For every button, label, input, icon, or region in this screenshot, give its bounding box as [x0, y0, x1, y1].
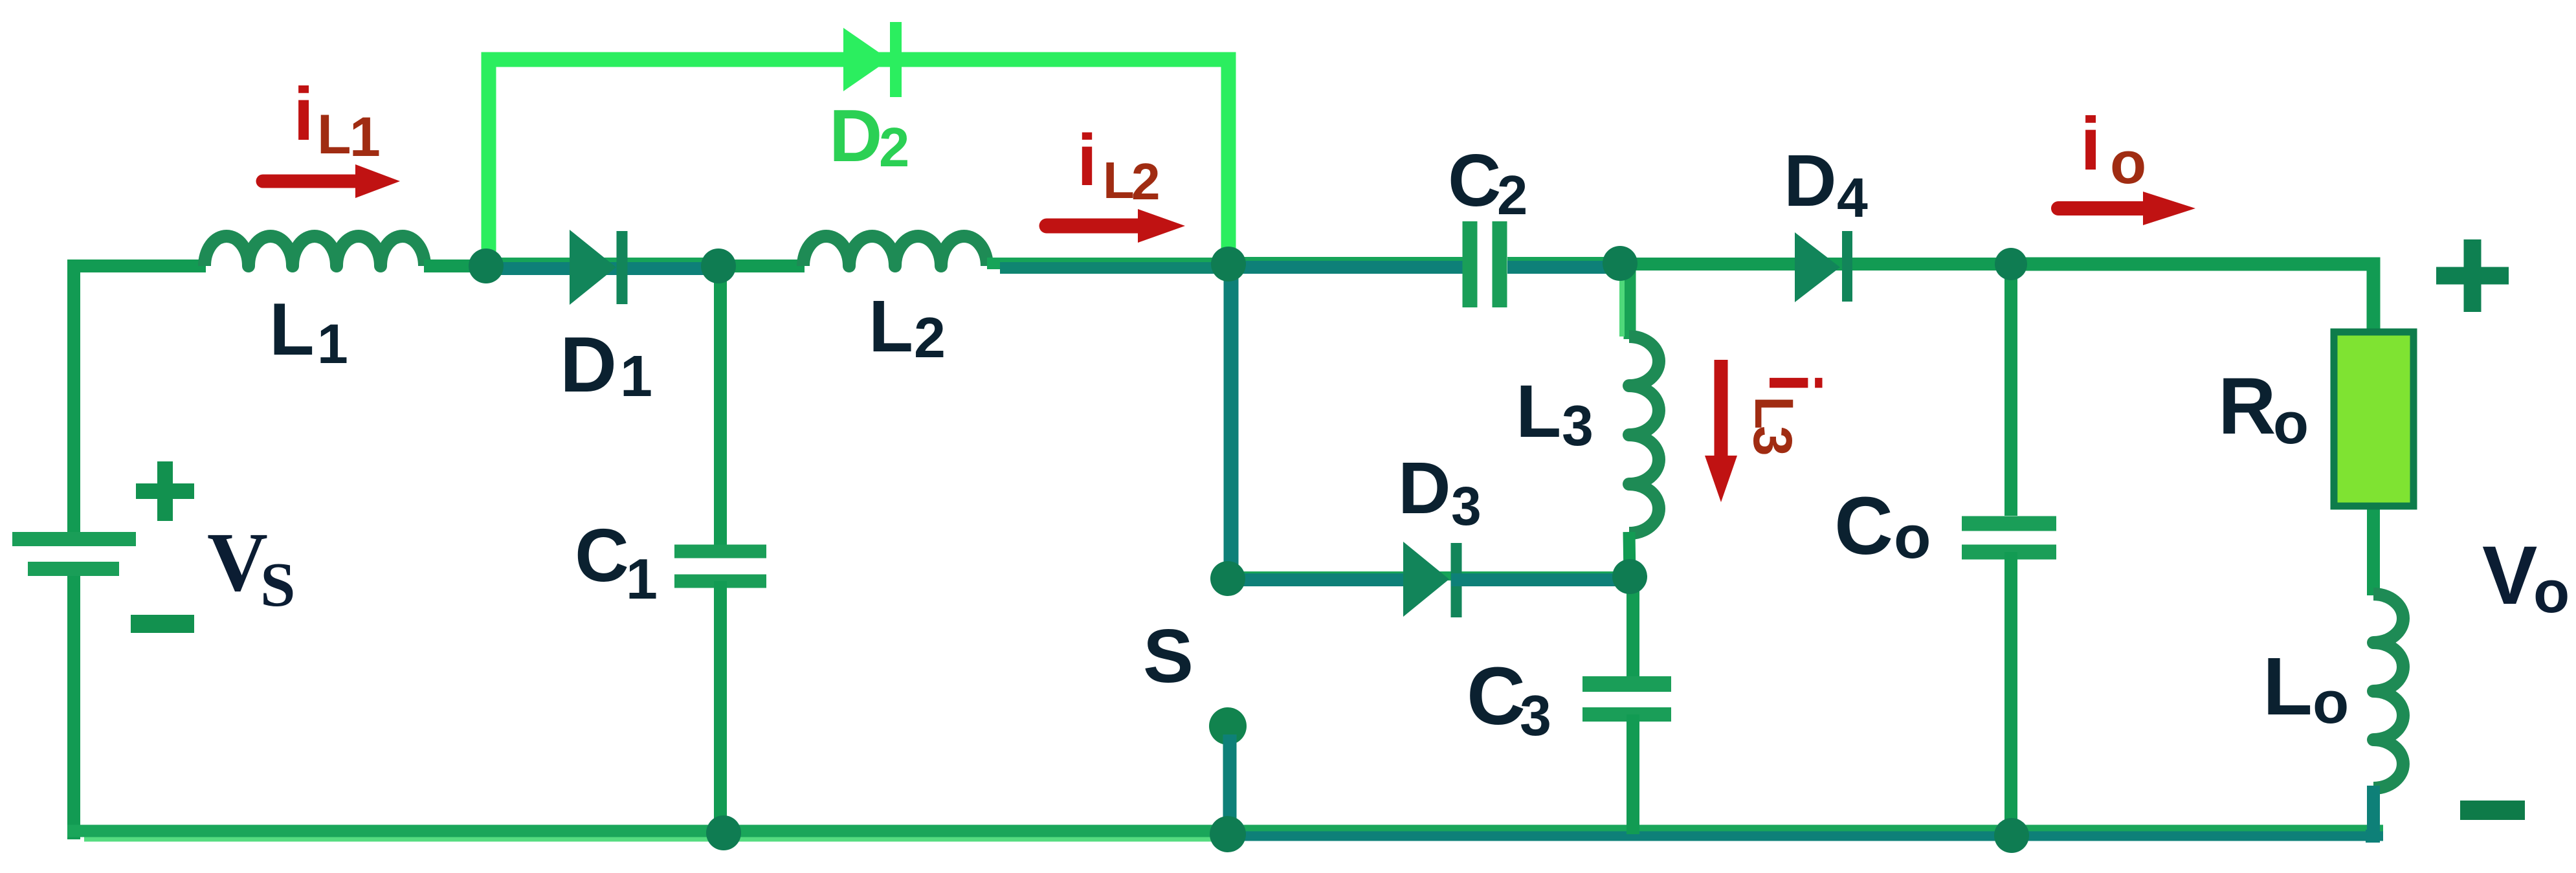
wire Ro bottom to Lo top: [2367, 507, 2380, 595]
svg-text:2: 2: [914, 305, 946, 370]
wire teal vertical node C to switch node: [1224, 264, 1239, 580]
output plus sign: [2436, 239, 2509, 312]
svg-text:C: C: [1448, 140, 1501, 222]
svg-text:1: 1: [317, 313, 348, 375]
svg-text:L: L: [1516, 370, 1561, 453]
wire teal D3 to node F: [1451, 573, 1630, 586]
svg-text:1: 1: [620, 344, 652, 409]
capacitor Co top wire: [2004, 264, 2017, 516]
svg-text:o: o: [2110, 130, 2146, 196]
current arrow iL2: [1047, 219, 1141, 234]
svg-text:i: i: [1077, 120, 1097, 201]
node S-bottom junction dot: [1210, 816, 1246, 852]
inductor Lo: [2373, 594, 2403, 788]
wire node E to top right corner and down to Ro: [2011, 264, 2373, 331]
wire bright green D2 bypass loop: [489, 60, 1228, 266]
capacitor C3 plates: [1582, 676, 1671, 692]
node C1-bottom junction dot: [706, 815, 741, 850]
svg-text:o: o: [2273, 392, 2309, 456]
current arrow io: [2058, 201, 2146, 215]
capacitor C3 top wire: [1627, 577, 1639, 677]
svg-text:L: L: [1744, 396, 1804, 429]
diode D3 cathode bar: [1451, 543, 1462, 617]
svg-text:D: D: [560, 320, 617, 408]
svg-text:L: L: [869, 285, 913, 367]
svg-text:L: L: [2263, 641, 2313, 732]
svg-text:C: C: [1834, 480, 1893, 571]
diode D1: [570, 230, 616, 305]
node D junction dot: [1603, 246, 1638, 281]
svg-text:D: D: [1784, 140, 1837, 221]
wire Lo bottom to bottom bus corner: [2366, 786, 2373, 836]
node A junction dot: [469, 249, 504, 283]
node E junction dot: [1995, 248, 2027, 280]
svg-text:4: 4: [1837, 167, 1868, 229]
wire left vertical from top bus to battery top plate: [67, 260, 80, 539]
node B junction dot: [701, 249, 736, 283]
svg-text:L: L: [317, 104, 351, 166]
wire node D to D4 and node E: [1620, 258, 2011, 271]
svg-text:1: 1: [626, 547, 658, 611]
node switch-top junction dot: [1210, 561, 1245, 596]
diode D3: [1403, 542, 1449, 617]
svg-text:i: i: [2080, 102, 2101, 186]
diode D1 cathode bar: [617, 231, 628, 304]
node F junction dot: [1612, 559, 1647, 594]
label iL3 rotated: [1742, 373, 1835, 456]
wire L3 bottom to node F: [1629, 532, 1630, 577]
svg-text:1: 1: [350, 106, 381, 168]
svg-text:3: 3: [1562, 393, 1593, 458]
node Co-bottom junction dot: [1994, 818, 2029, 853]
switch S lower lead: [1223, 735, 1237, 833]
capacitor C1 bottom wire: [714, 581, 727, 833]
wire green base node A to node B: [486, 258, 718, 269]
svg-text:2: 2: [1497, 165, 1527, 227]
svg-text:i: i: [293, 72, 314, 156]
capacitor C1 top wire: [714, 266, 727, 545]
svg-text:S: S: [260, 550, 296, 620]
battery Vs short plate: [28, 562, 119, 576]
wire node B to L2: [718, 260, 805, 272]
svg-text:3: 3: [1520, 683, 1551, 747]
capacitor C1 plates: [674, 545, 766, 558]
node C junction dot: [1211, 247, 1246, 282]
inductor L1: [205, 236, 425, 266]
capacitor Co plates: [1962, 516, 2056, 531]
svg-text:i: i: [1754, 373, 1835, 393]
diode D2 cathode bar: [890, 22, 902, 97]
svg-text:o: o: [1894, 503, 1931, 571]
diode D4 cathode bar: [1842, 231, 1852, 302]
svg-text:L: L: [269, 289, 315, 371]
svg-text:2: 2: [879, 117, 909, 179]
svg-text:2: 2: [1131, 153, 1160, 210]
svg-text:3: 3: [1451, 476, 1482, 536]
wire teal C2 right plate to node D: [1507, 261, 1620, 274]
capacitor C3 bottom wire: [1627, 714, 1639, 834]
svg-text:R: R: [2218, 362, 2276, 451]
svg-text:V: V: [207, 516, 268, 609]
inductor L3: [1629, 337, 1659, 533]
wire L1 right to node A: [424, 260, 486, 272]
svg-text:L: L: [1103, 151, 1135, 209]
svg-text:C: C: [575, 513, 629, 597]
battery minus sign: [131, 615, 194, 633]
wire bottom bus teal overlay right part: [1228, 832, 2383, 841]
wire teal node A to node B through D1: [486, 262, 718, 275]
svg-text:D: D: [829, 95, 882, 177]
wire teal switch node to D3: [1228, 573, 1408, 586]
svg-text:V: V: [2482, 529, 2537, 622]
battery plus sign: [136, 461, 194, 521]
wire green base C2 to node D: [1507, 257, 1620, 267]
capacitor C2 plates: [1463, 221, 1478, 307]
capacitor Co bottom wire: [2004, 552, 2017, 835]
wire bottom bus green: [67, 825, 2383, 837]
wire L2 right to node C: [987, 258, 1228, 269]
resistor Ro: [2334, 332, 2414, 506]
diode D2: [843, 28, 889, 91]
svg-text:o: o: [2533, 559, 2570, 625]
switch S lower contact circle: [1209, 707, 1247, 745]
svg-text:o: o: [2313, 670, 2349, 736]
svg-text:D: D: [1398, 447, 1451, 529]
current arrow iL3 (down): [1715, 360, 1728, 457]
wire top bus left to L1: [67, 260, 206, 272]
wire teal node C to C2 left plate: [1228, 261, 1463, 274]
svg-text:S: S: [1143, 613, 1194, 698]
output minus sign: [2460, 801, 2525, 820]
wire left vertical from battery bottom plate to bottom bus: [67, 569, 80, 839]
svg-text:3: 3: [1742, 426, 1803, 456]
wire green base node C to C2: [1228, 257, 1463, 267]
wire bottom bus light green under-stripe: [84, 837, 1217, 842]
battery Vs long plate: [12, 532, 136, 546]
inductor L2: [803, 236, 987, 266]
diode D4: [1795, 232, 1840, 302]
wire green base switch node to node F: [1228, 571, 1630, 580]
wire teal overlay L2 right to node C: [1000, 262, 1228, 274]
wire light green edge node D to L3 top: [1619, 274, 1625, 337]
current arrow iL1: [263, 175, 357, 188]
wire node D to L3 top: [1624, 267, 1636, 339]
svg-text:C: C: [1467, 650, 1526, 742]
